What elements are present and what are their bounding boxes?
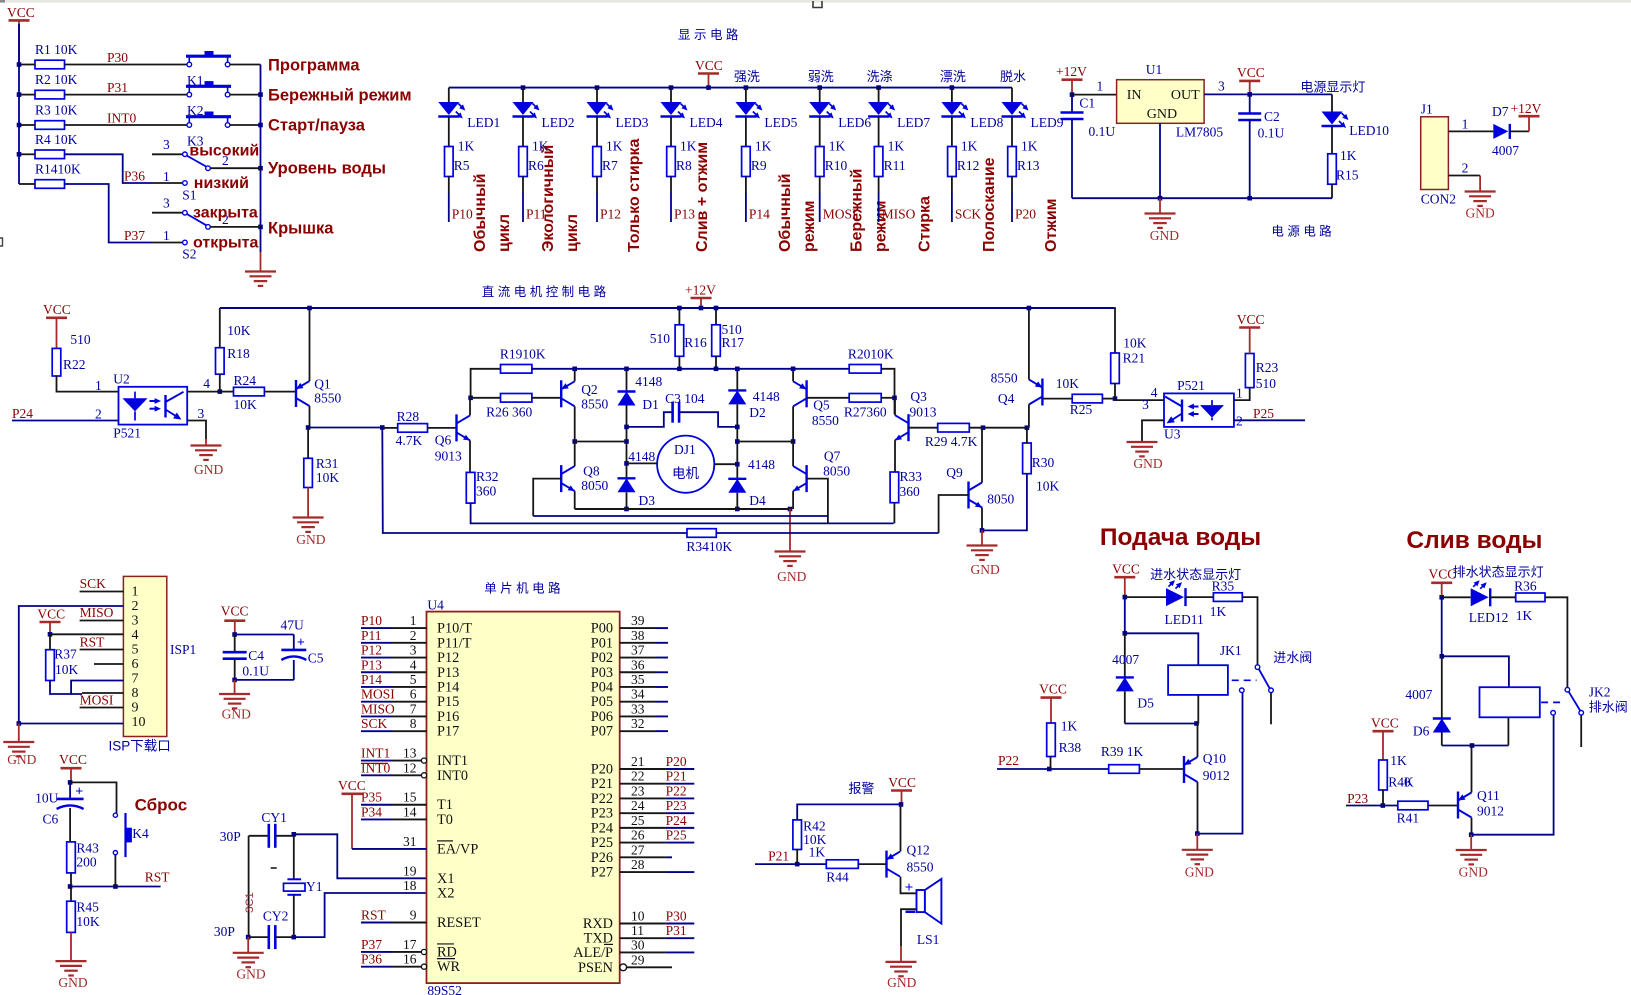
ground GND (ISP) xyxy=(3,724,36,768)
svg-text:RST: RST xyxy=(145,870,171,885)
wire U1 gnd xyxy=(1158,123,1163,200)
title Podacha vody xyxy=(1100,524,1261,551)
svg-text:VCC: VCC xyxy=(37,607,65,622)
wire xyxy=(471,369,501,398)
wire U1 pin1 xyxy=(1072,79,1117,95)
ground GND (reset) xyxy=(56,932,88,990)
svg-text:1: 1 xyxy=(163,228,170,243)
svg-text:IN: IN xyxy=(1127,88,1142,103)
wire pin 33 U4 xyxy=(591,701,668,725)
svg-text:35: 35 xyxy=(631,672,645,687)
power flag +12V (motor) xyxy=(685,283,716,311)
wire P23 net xyxy=(1346,790,1398,808)
junction xyxy=(950,85,955,90)
svg-text:21: 21 xyxy=(631,754,645,769)
power flag VCC (R38) xyxy=(1039,682,1067,724)
capacitor C6 xyxy=(35,782,84,842)
resistor R35 xyxy=(1186,579,1243,620)
label nizkiy xyxy=(194,175,249,192)
svg-text:R41: R41 xyxy=(1397,811,1420,826)
junction xyxy=(258,92,263,97)
svg-text:P14: P14 xyxy=(749,207,770,222)
svg-text:29: 29 xyxy=(631,952,645,967)
wire xyxy=(308,425,385,430)
svg-text:10K: 10K xyxy=(55,662,79,677)
svg-text:RST: RST xyxy=(80,635,106,650)
svg-text:1K: 1K xyxy=(1021,139,1038,154)
svg-text:P23: P23 xyxy=(666,798,687,813)
wire P36 net xyxy=(65,154,153,183)
wire xyxy=(596,117,598,147)
svg-text:P24: P24 xyxy=(591,820,613,836)
svg-text:X2: X2 xyxy=(437,886,454,902)
svg-text:510: 510 xyxy=(1256,376,1277,391)
svg-text:26: 26 xyxy=(631,828,645,843)
wire xyxy=(448,117,450,147)
svg-text:P10: P10 xyxy=(452,207,473,222)
svg-text:R1910K: R1910K xyxy=(500,347,546,362)
svg-text:R24: R24 xyxy=(234,373,257,388)
svg-text:P22: P22 xyxy=(591,791,613,807)
svg-text:P15: P15 xyxy=(437,694,459,710)
svg-text:P27: P27 xyxy=(591,865,613,881)
svg-text:VCC: VCC xyxy=(221,604,249,619)
svg-text:C3 104: C3 104 xyxy=(665,391,705,406)
wire pin 9 U4 RESET xyxy=(361,908,481,932)
title Sliv vody xyxy=(1406,527,1542,554)
transistor Q9 8050 xyxy=(946,465,1014,509)
svg-text:1: 1 xyxy=(1097,79,1104,94)
wire Q10 collector xyxy=(1197,724,1199,758)
label 强洗 xyxy=(734,69,760,84)
transistor Q3 9013 xyxy=(895,389,937,441)
junction xyxy=(521,85,526,90)
wire Q5 collector xyxy=(791,406,796,444)
wire Q12 collector xyxy=(901,877,917,894)
diode D1 xyxy=(618,374,663,412)
resistor R20 xyxy=(848,347,894,374)
resistor R33 xyxy=(890,469,922,503)
wire xyxy=(264,391,296,393)
svg-text:P37: P37 xyxy=(361,937,382,952)
svg-text:Q5: Q5 xyxy=(813,398,830,413)
svg-text:0.1U: 0.1U xyxy=(1089,124,1116,139)
svg-text:R35: R35 xyxy=(1212,579,1235,594)
svg-text:1K: 1K xyxy=(755,139,772,154)
svg-text:P20: P20 xyxy=(591,762,613,778)
svg-text:23: 23 xyxy=(631,783,645,798)
resistor R2 xyxy=(19,72,78,99)
wire pin 18 U4 X2 xyxy=(403,878,454,902)
svg-text:34: 34 xyxy=(631,687,645,702)
svg-text:3: 3 xyxy=(163,196,170,211)
wire xyxy=(1440,597,1445,658)
optocoupler U2 P521 xyxy=(113,372,187,441)
svg-text:16: 16 xyxy=(403,952,417,967)
svg-text:Q7: Q7 xyxy=(824,449,841,464)
svg-text:Крышка: Крышка xyxy=(268,220,334,238)
svg-text:MOSI: MOSI xyxy=(361,687,395,702)
svg-text:11: 11 xyxy=(631,923,644,938)
resistor R44 xyxy=(826,860,858,885)
label otkryta xyxy=(193,234,258,251)
wire left bus (keys) xyxy=(18,24,20,184)
pin 6 ISP1 xyxy=(132,657,139,672)
ground (keys) xyxy=(245,252,276,286)
LED LED11 xyxy=(1125,580,1204,627)
wire xyxy=(878,117,880,147)
wire pin 31 U4 EA xyxy=(352,834,478,858)
svg-text:R1 10K: R1 10K xyxy=(35,42,78,57)
label vertical P20 xyxy=(1043,199,1060,253)
decorative2 xyxy=(0,0,822,246)
wire Q11 collector xyxy=(1471,746,1473,793)
wire xyxy=(1011,117,1013,147)
svg-text:4: 4 xyxy=(1151,385,1158,400)
wire MISO net xyxy=(80,605,124,621)
svg-text:10: 10 xyxy=(631,909,645,924)
pushbutton K3 xyxy=(186,112,261,149)
wire xyxy=(1123,597,1128,636)
svg-text:RESET: RESET xyxy=(437,915,481,931)
wire xyxy=(858,863,886,865)
svg-text:2: 2 xyxy=(1236,414,1243,429)
svg-text:LED10: LED10 xyxy=(1349,123,1389,138)
title mcu circuit xyxy=(484,581,561,596)
svg-text:LED3: LED3 xyxy=(616,115,649,130)
svg-text:Q3: Q3 xyxy=(910,389,927,404)
wire ISP pin2 xyxy=(17,606,124,726)
svg-text:R7: R7 xyxy=(602,158,618,173)
svg-text:GND: GND xyxy=(1133,456,1162,471)
svg-text:30: 30 xyxy=(631,937,645,952)
resistor R17 xyxy=(712,306,745,371)
svg-text:510: 510 xyxy=(70,332,91,347)
wire xyxy=(819,117,821,147)
svg-text:GND: GND xyxy=(971,562,1000,577)
wire xyxy=(235,634,294,636)
LED LED10 xyxy=(1322,94,1390,138)
pushbutton K1 xyxy=(186,51,261,88)
svg-text:Q10: Q10 xyxy=(1203,751,1226,766)
pin 2 ISP1 xyxy=(132,599,139,614)
capacitor CY1 xyxy=(220,810,294,848)
svg-text:LED5: LED5 xyxy=(764,115,797,130)
svg-text:12: 12 xyxy=(403,760,417,775)
svg-text:1K: 1K xyxy=(1061,719,1078,734)
wire pin 14 U4 T0 xyxy=(361,804,453,828)
power flag VCC (reset) xyxy=(59,752,87,785)
svg-text:CY1: CY1 xyxy=(261,810,287,825)
svg-text:GND: GND xyxy=(1147,107,1177,122)
svg-text:1: 1 xyxy=(132,585,139,600)
wire pin 23 U4 xyxy=(591,783,695,807)
decorative dash xyxy=(244,868,277,913)
capacitor C3 xyxy=(627,391,738,427)
junction xyxy=(17,152,22,157)
svg-text:P31: P31 xyxy=(107,80,128,95)
label 洗涤 xyxy=(867,69,893,84)
svg-text:P16: P16 xyxy=(437,709,459,725)
pin 8 ISP1 xyxy=(132,686,139,701)
svg-text:Q12: Q12 xyxy=(907,843,930,858)
svg-text:GND: GND xyxy=(1185,865,1214,880)
svg-text:2: 2 xyxy=(95,407,102,422)
label 脱水 xyxy=(1000,69,1026,84)
svg-text:GND: GND xyxy=(194,462,223,477)
power flag VCC (psu) xyxy=(1237,65,1265,97)
wire xyxy=(575,441,627,443)
wire P21 net xyxy=(755,849,826,867)
resistor R42 xyxy=(793,819,827,860)
svg-text:Экологичный: Экологичный xyxy=(540,145,557,252)
svg-text:U1: U1 xyxy=(1146,62,1163,77)
svg-text:GND: GND xyxy=(1466,206,1495,221)
resistor R36 xyxy=(1490,579,1545,624)
svg-text:VCC: VCC xyxy=(1371,716,1399,731)
svg-text:INT0: INT0 xyxy=(437,768,468,784)
relay JK1 coil xyxy=(1168,643,1242,695)
wire xyxy=(624,406,629,479)
svg-text:P02: P02 xyxy=(591,650,613,666)
svg-text:P05: P05 xyxy=(591,694,613,710)
svg-text:D2: D2 xyxy=(749,405,766,420)
wire xyxy=(1102,396,1117,401)
svg-text:9: 9 xyxy=(410,908,417,923)
svg-text:P25: P25 xyxy=(591,835,613,851)
wire xyxy=(294,893,427,937)
title motor control xyxy=(482,284,607,299)
wire xyxy=(428,427,457,429)
svg-text:1K: 1K xyxy=(1210,604,1227,619)
svg-text:цикл: цикл xyxy=(564,214,581,252)
svg-text:22: 22 xyxy=(631,769,645,784)
resistor R10 xyxy=(815,139,847,177)
svg-text:LED6: LED6 xyxy=(838,115,871,130)
wire pin 12 U4 INT0 xyxy=(361,760,468,784)
svg-text:P12: P12 xyxy=(600,207,621,222)
wire xyxy=(951,117,953,147)
svg-text:INT0: INT0 xyxy=(107,111,136,126)
svg-text:R45: R45 xyxy=(76,900,99,915)
svg-text:R13: R13 xyxy=(1017,158,1040,173)
transistor Q2 8550 xyxy=(561,380,608,411)
label vertical MISO xyxy=(917,196,934,252)
svg-text:Отжим: Отжим xyxy=(1043,199,1060,253)
wire Q9 collector xyxy=(981,428,983,483)
wire xyxy=(881,369,897,414)
wire xyxy=(746,177,770,223)
wire Q3 emitter xyxy=(894,440,896,472)
capacitor CY2 xyxy=(214,909,296,950)
label vertical P13 xyxy=(694,142,711,252)
svg-text:GND: GND xyxy=(887,975,916,990)
LED LED8 xyxy=(941,88,1003,130)
svg-text:EA/VP: EA/VP xyxy=(437,841,478,857)
svg-text:R18: R18 xyxy=(227,346,250,361)
wire Q3 collector xyxy=(894,398,896,415)
svg-text:10K: 10K xyxy=(1056,376,1080,391)
transistor Q5 8550 xyxy=(793,380,839,428)
svg-text:30P: 30P xyxy=(214,924,235,939)
svg-text:9012: 9012 xyxy=(1203,768,1230,783)
svg-text:R4 10K: R4 10K xyxy=(35,132,78,147)
svg-text:1: 1 xyxy=(163,169,170,184)
wire xyxy=(893,503,895,524)
svg-text:Q8: Q8 xyxy=(583,464,600,479)
svg-text:P14: P14 xyxy=(361,672,382,687)
svg-text:10K: 10K xyxy=(234,397,258,412)
svg-text:360: 360 xyxy=(900,484,921,499)
svg-text:режим: режим xyxy=(801,201,818,252)
svg-text:Подача воды: Подача воды xyxy=(1100,524,1261,551)
ground GND (psu) xyxy=(1145,198,1180,243)
wire Q9 emitter xyxy=(980,508,985,533)
svg-text:R37: R37 xyxy=(54,647,77,662)
relay JK2 contact xyxy=(1541,687,1583,747)
svg-text:P14: P14 xyxy=(437,679,459,695)
svg-text:VCC: VCC xyxy=(695,58,723,73)
svg-text:SCK: SCK xyxy=(361,716,388,731)
svg-text:R33: R33 xyxy=(900,469,923,484)
LED LED3 xyxy=(587,88,649,130)
svg-text:8550: 8550 xyxy=(991,371,1018,386)
svg-text:VCC: VCC xyxy=(59,752,87,767)
svg-text:ISP下载口: ISP下载口 xyxy=(109,739,171,754)
ground GND (Q9) xyxy=(967,530,1000,577)
svg-text:电机: 电机 xyxy=(672,466,700,481)
svg-text:Уровень воды: Уровень воды xyxy=(268,160,386,178)
svg-text:Старт/пауза: Старт/пауза xyxy=(268,117,366,135)
svg-text:39: 39 xyxy=(631,613,645,628)
svg-text:R16: R16 xyxy=(684,335,707,350)
svg-text:P11/T: P11/T xyxy=(437,635,472,651)
resistor R31 xyxy=(304,428,340,488)
LED LED9 xyxy=(1002,88,1064,130)
power flag VCC (ISP) xyxy=(37,607,65,637)
svg-text:R29 4.7K: R29 4.7K xyxy=(925,434,978,449)
wire xyxy=(735,367,740,391)
svg-text:Только стирка: Только стирка xyxy=(626,138,643,252)
svg-text:R31: R31 xyxy=(316,456,339,471)
svg-text:0.1U: 0.1U xyxy=(242,664,269,679)
svg-text:GND: GND xyxy=(236,967,265,982)
svg-text:27: 27 xyxy=(631,842,645,857)
ground GND (bridge) xyxy=(775,509,807,584)
svg-text:P23: P23 xyxy=(1347,791,1368,806)
svg-text:Q2: Q2 xyxy=(581,382,598,397)
svg-text:C6: C6 xyxy=(43,812,59,827)
svg-text:GND: GND xyxy=(777,569,806,584)
svg-text:排水状态显示灯: 排水状态显示灯 xyxy=(1453,565,1544,580)
wire cross R32-R33 xyxy=(471,503,894,523)
transistor Q7 8050 xyxy=(793,449,850,493)
svg-text:R12: R12 xyxy=(957,158,980,173)
resistor R18 xyxy=(216,308,251,392)
svg-text:P07: P07 xyxy=(591,724,613,740)
svg-text:8550: 8550 xyxy=(581,397,608,412)
svg-text:P00: P00 xyxy=(591,621,613,637)
wire motor left xyxy=(627,462,658,464)
svg-text:10K: 10K xyxy=(1036,479,1060,494)
svg-text:ALE/P: ALE/P xyxy=(573,945,613,961)
svg-text:INT1: INT1 xyxy=(437,753,468,769)
wire motor right xyxy=(714,463,737,465)
svg-text:JK1: JK1 xyxy=(1220,643,1242,658)
svg-text:LED11: LED11 xyxy=(1165,612,1204,627)
wire RST net xyxy=(80,635,124,650)
wire Q1 emitter xyxy=(307,306,312,381)
power flag VCC (R23) xyxy=(1237,312,1265,354)
svg-text:R21: R21 xyxy=(1123,351,1146,366)
power flag VCC (C4) xyxy=(221,604,249,637)
svg-text:1: 1 xyxy=(95,378,102,393)
power flag +12V (psu) xyxy=(1056,64,1087,95)
LED LED7 xyxy=(868,88,930,130)
wire xyxy=(745,117,747,147)
svg-text:VCC: VCC xyxy=(1237,65,1265,80)
svg-text:D6: D6 xyxy=(1413,724,1430,739)
junction xyxy=(258,166,263,171)
svg-text:R8: R8 xyxy=(676,158,692,173)
svg-text:P37: P37 xyxy=(124,228,145,243)
svg-text:VCC: VCC xyxy=(1112,562,1140,577)
svg-text:SCK: SCK xyxy=(80,576,107,591)
label inlet valve xyxy=(1273,650,1312,665)
wire pin 34 U4 xyxy=(591,687,668,711)
svg-text:R26 360: R26 360 xyxy=(486,405,532,420)
wire U3 pin1 xyxy=(1234,386,1250,401)
wire xyxy=(1545,597,1567,687)
power flag VCC (led11) xyxy=(1112,562,1140,600)
wire xyxy=(624,492,629,511)
wire Q4 emitter xyxy=(1027,306,1032,380)
svg-text:MISO: MISO xyxy=(882,207,916,222)
resistor R13 xyxy=(1008,139,1040,177)
svg-text:C4: C4 xyxy=(248,648,264,663)
wire xyxy=(1139,768,1184,770)
svg-text:8550: 8550 xyxy=(812,413,839,428)
transistor Q12 8550 xyxy=(887,843,934,878)
label vertical SCK xyxy=(981,157,998,252)
svg-text:2: 2 xyxy=(410,628,417,643)
svg-text:排水阀: 排水阀 xyxy=(1589,700,1628,715)
svg-text:ЗС1: ЗС1 xyxy=(244,892,256,913)
diode D5 4007 xyxy=(1112,633,1154,710)
svg-text:2: 2 xyxy=(132,599,139,614)
wire xyxy=(1471,715,1553,835)
svg-text:1: 1 xyxy=(1236,386,1243,401)
diode D6 4007 xyxy=(1405,656,1450,738)
svg-text:открыта: открыта xyxy=(193,234,258,251)
svg-text:4148: 4148 xyxy=(635,374,662,389)
svg-text:P10: P10 xyxy=(361,613,382,628)
LED LED12 xyxy=(1442,580,1509,625)
svg-text:4007: 4007 xyxy=(1112,652,1139,667)
svg-text:9012: 9012 xyxy=(1477,804,1504,819)
wire Q7 base xyxy=(807,479,828,524)
svg-text:Стирка: Стирка xyxy=(917,196,934,252)
label vertical P10 xyxy=(472,174,513,252)
svg-text:VCC: VCC xyxy=(43,302,71,317)
svg-text:10K: 10K xyxy=(1123,336,1147,351)
svg-text:P26: P26 xyxy=(591,850,613,866)
svg-text:4: 4 xyxy=(132,628,139,643)
svg-text:P12: P12 xyxy=(361,643,382,658)
capacitor C1 xyxy=(1061,95,1116,199)
ground GND (crystal) xyxy=(233,937,266,981)
svg-text:10: 10 xyxy=(132,715,146,730)
